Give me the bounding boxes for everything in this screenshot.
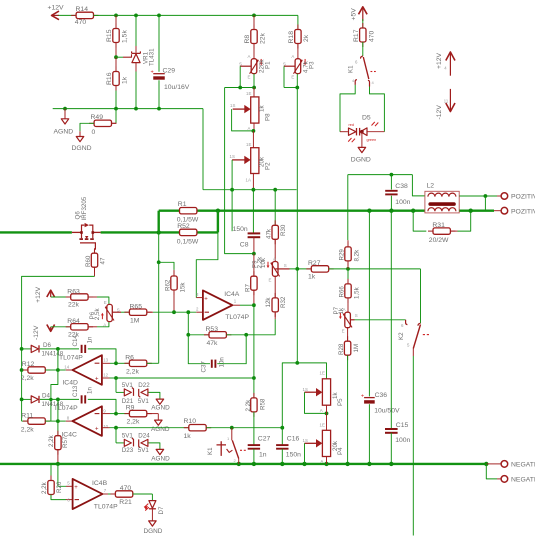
capacitor C37 10n xyxy=(211,360,213,368)
wire R53 right xyxy=(226,334,246,336)
wire gate to R60 xyxy=(94,249,97,251)
svg-text:1,5k: 1,5k xyxy=(121,30,128,43)
junction pozitiv x485 top xyxy=(484,194,488,198)
svg-text:+: + xyxy=(361,393,364,399)
svg-text:D5: D5 xyxy=(362,114,371,121)
svg-text:1A: 1A xyxy=(246,178,251,183)
svg-text:12: 12 xyxy=(103,372,108,377)
svg-text:1k: 1k xyxy=(121,76,128,84)
wire thin sense rail x159 down xyxy=(158,232,160,262)
wire TL431 column bottom xyxy=(135,63,137,72)
wire R11 to IC4C output xyxy=(45,420,58,422)
wire pin12 net xyxy=(116,377,254,379)
wire node to TL431 ref xyxy=(116,56,123,58)
svg-text:2,2k: 2,2k xyxy=(126,368,139,375)
wire R18 to P3 xyxy=(297,44,299,59)
wire P4 wiper to bus xyxy=(304,443,306,464)
resistor R62 15k xyxy=(173,270,175,276)
potentiometer P4 20k xyxy=(322,430,330,456)
junction y190 P2 wiper xyxy=(230,188,234,192)
trimmer P7 1k xyxy=(345,312,351,328)
junction D4 node xyxy=(56,398,60,402)
wire TL431 column top xyxy=(135,15,137,46)
svg-text:R64: R64 xyxy=(67,318,80,325)
junction P8/P2 node xyxy=(252,129,256,133)
junction sense C8 node xyxy=(252,252,256,256)
wire P1 wiper loop xyxy=(240,65,251,67)
wire D4 node to output xyxy=(57,399,59,421)
wire -12V to R64 xyxy=(51,326,71,328)
svg-text:A: A xyxy=(273,256,276,261)
capacitor C38 100n xyxy=(390,175,392,190)
svg-text:22k: 22k xyxy=(68,302,80,309)
diode D6 1N4148 xyxy=(31,345,38,352)
wire R21 to D7 xyxy=(133,493,153,495)
zener D24 5V1 xyxy=(141,439,148,446)
terminal NEGATIV 1 xyxy=(501,461,508,468)
wire R26 to pin6 xyxy=(51,495,66,500)
svg-text:+: + xyxy=(95,376,99,382)
resistor R57 2,2k vertical xyxy=(57,421,59,436)
wire P1 bottom xyxy=(253,74,255,88)
wire R62 bottom xyxy=(173,290,175,312)
wire R63 to P6 top xyxy=(88,296,97,298)
svg-text:2,2k: 2,2k xyxy=(48,434,55,447)
wire C37 right leg xyxy=(217,335,246,364)
resistor R26 2,2k vertical xyxy=(50,476,52,481)
wire negative bus thick xyxy=(0,463,486,465)
resistor R12 2,2k xyxy=(22,369,28,371)
wire AGND stub xyxy=(64,109,66,119)
supply arrow -12V mid-left xyxy=(50,327,52,331)
junction P3 node xyxy=(295,86,299,90)
wire D6 anode xyxy=(22,348,32,350)
resistor R16 1k xyxy=(115,67,117,72)
svg-text:10n: 10n xyxy=(219,357,226,368)
svg-text:IRF3205: IRF3205 xyxy=(81,196,88,220)
junction IC4D output node xyxy=(56,368,60,372)
junction neg bus x391 xyxy=(389,462,393,466)
wire P3 bottom xyxy=(296,74,298,88)
wire to D23 xyxy=(116,442,124,444)
LED D7 xyxy=(149,501,156,509)
wire shunt right vertical thick xyxy=(217,211,219,233)
resistor R17 470 xyxy=(362,23,364,28)
svg-text:D6: D6 xyxy=(43,342,51,349)
resistor R8 22k xyxy=(253,25,255,30)
junction AGND bus x136 xyxy=(134,107,138,111)
wire R31 left leg xyxy=(413,211,426,231)
svg-text:P5: P5 xyxy=(337,398,344,406)
svg-text:R58: R58 xyxy=(259,398,266,410)
junction neg bus corner xyxy=(484,462,488,466)
svg-text:1S: 1S xyxy=(303,387,308,392)
svg-text:AGND: AGND xyxy=(151,426,170,433)
relay contact K1 upper xyxy=(361,56,363,59)
junction D5 center xyxy=(360,130,364,134)
svg-text:1n: 1n xyxy=(86,387,93,394)
svg-text:470: 470 xyxy=(75,19,87,26)
junction pin2 net R62 xyxy=(172,310,176,314)
wire C13 to pin9 node xyxy=(88,399,116,413)
resistor R66 1,5k xyxy=(347,269,349,284)
svg-text:C13: C13 xyxy=(72,385,79,397)
svg-text:NEGATIV: NEGATIV xyxy=(511,462,535,469)
zener D22 5V1 xyxy=(141,389,148,396)
junction neg bus x304 xyxy=(302,462,306,466)
diode D4 1N4148 xyxy=(31,396,38,403)
wire D5 to DGND xyxy=(361,132,363,148)
svg-text:100n: 100n xyxy=(395,437,410,444)
svg-text:1S: 1S xyxy=(230,154,235,159)
junction IC4A output xyxy=(252,303,256,307)
junction left rail D4 xyxy=(20,398,24,402)
capacitor C29 10u/16V xyxy=(153,73,165,75)
junction neg bus x238 xyxy=(237,462,241,466)
svg-text:S: S xyxy=(284,263,287,268)
svg-text:C37: C37 xyxy=(200,361,207,373)
svg-text:12k: 12k xyxy=(265,297,272,308)
resistor R60 47 xyxy=(94,248,96,253)
terminal POZITIV 2 xyxy=(501,207,508,214)
svg-text:R9: R9 xyxy=(126,405,135,412)
svg-text:2,2k: 2,2k xyxy=(245,399,252,412)
wire P7 wiper to K2 xyxy=(350,319,354,321)
wire node to C14 xyxy=(58,348,79,350)
svg-text:R66: R66 xyxy=(338,286,345,298)
svg-text:IC4A: IC4A xyxy=(224,291,240,298)
terminal NEGATIV 2 xyxy=(501,476,508,483)
wire IC4B output xyxy=(103,493,109,495)
junction neg bus x369 xyxy=(367,462,371,466)
wire D6 node to output xyxy=(57,349,59,370)
wire pin10 stub xyxy=(102,427,110,429)
svg-text:C16: C16 xyxy=(287,435,300,442)
wire R8 top stub xyxy=(253,15,255,29)
wire C8 bottom xyxy=(253,237,255,253)
wire R49 to DGND xyxy=(80,123,94,131)
svg-text:+5V: +5V xyxy=(350,8,357,21)
wire left rail x21 down xyxy=(21,349,23,421)
potentiometer P2 20k xyxy=(251,148,259,174)
svg-text:100n: 100n xyxy=(395,199,410,206)
capacitor C36 10u/50V xyxy=(364,397,375,399)
svg-text:R30: R30 xyxy=(280,224,287,236)
wire to D21 xyxy=(116,391,124,393)
wire set node to P5 xyxy=(297,363,326,379)
svg-text:A: A xyxy=(291,54,294,59)
svg-text:E: E xyxy=(104,300,107,305)
svg-text:1n: 1n xyxy=(86,336,93,343)
wire R30 column xyxy=(274,190,276,226)
junction bus x391 xyxy=(389,209,393,213)
wire P5 wiper loop xyxy=(305,392,327,413)
wire R32 bottom to R53 node xyxy=(274,312,276,319)
svg-text:2,2k: 2,2k xyxy=(21,426,34,433)
svg-text:1M: 1M xyxy=(130,317,140,324)
resistor R11 2,2k xyxy=(22,420,28,422)
junction top bus x159 xyxy=(157,14,161,18)
wire K1 left pin to D5 loop xyxy=(340,85,355,132)
svg-text:-12V: -12V xyxy=(436,105,443,120)
svg-text:470: 470 xyxy=(368,30,375,42)
svg-text:A: A xyxy=(248,54,251,59)
op-amp IC4C TL074P xyxy=(72,406,102,436)
potentiometer P8 1k xyxy=(251,97,259,123)
supply arrow +12V top-left xyxy=(53,14,60,16)
svg-text:-12V: -12V xyxy=(33,325,40,340)
junction bus-left corner xyxy=(157,230,161,234)
svg-text:C15: C15 xyxy=(396,422,409,429)
svg-text:E: E xyxy=(342,329,345,334)
junction pin13 node xyxy=(114,361,118,365)
wire K2 pole down off-page xyxy=(412,349,414,357)
op-amp IC4B TL074P xyxy=(73,479,103,509)
wire D4 anode xyxy=(22,398,32,400)
svg-text:+12V: +12V xyxy=(35,286,42,303)
svg-text:AGND: AGND xyxy=(151,405,170,412)
svg-text:L2: L2 xyxy=(427,183,435,190)
svg-text:+12V: +12V xyxy=(436,52,443,69)
wire output column down xyxy=(253,305,255,378)
svg-text:K1: K1 xyxy=(207,447,214,455)
wire IC4B pin5 feed xyxy=(58,464,66,486)
junction bus x369 xyxy=(367,209,371,213)
capacitor C8 150n xyxy=(248,232,261,234)
ground AGND D24 xyxy=(156,449,164,454)
junction pin12 node xyxy=(114,376,118,380)
svg-text:D7: D7 xyxy=(158,506,165,514)
wire P2 wiper loop xyxy=(231,160,233,190)
wire C29 column top xyxy=(158,15,160,71)
wire R57 to bus xyxy=(57,450,59,464)
wire C15 column top xyxy=(390,211,392,429)
wire C27 to bus xyxy=(253,449,255,464)
ground DGND under D5 xyxy=(358,147,366,152)
svg-text:10u/16V: 10u/16V xyxy=(164,84,190,91)
wire P8 bottom pin xyxy=(253,123,255,131)
svg-text:green: green xyxy=(367,138,377,142)
resistor R28 1M xyxy=(347,336,349,341)
wire R64 to P6 bottom xyxy=(88,326,97,328)
svg-text:E: E xyxy=(291,74,294,79)
junction AGND bus x65 xyxy=(63,107,67,111)
junction P5 bottom xyxy=(325,412,329,416)
svg-text:R60: R60 xyxy=(85,255,92,267)
svg-text:1n: 1n xyxy=(259,452,267,459)
junction D6 node xyxy=(56,347,60,351)
ground DGND D7 xyxy=(149,521,157,526)
svg-text:470: 470 xyxy=(120,485,132,492)
svg-text:150n: 150n xyxy=(233,226,248,233)
svg-text:1k: 1k xyxy=(259,105,266,112)
wire R27 node line to K2 xyxy=(348,268,421,270)
capacitor C16 150n xyxy=(276,444,288,446)
wire K1 right pin to D5 loop xyxy=(370,87,385,132)
svg-text:P2: P2 xyxy=(264,162,271,170)
svg-text:R14: R14 xyxy=(76,6,89,13)
supply arrow +5V xyxy=(362,8,364,21)
wire R7 to IC4A output xyxy=(253,290,255,305)
svg-text:R1: R1 xyxy=(178,201,187,208)
svg-text:E: E xyxy=(269,277,272,282)
svg-text:22k: 22k xyxy=(259,32,266,44)
svg-text:R27: R27 xyxy=(308,260,321,267)
svg-text:R53: R53 xyxy=(206,326,219,333)
svg-text:R21: R21 xyxy=(119,499,132,506)
svg-text:K2: K2 xyxy=(398,332,405,340)
trimmer P3 4,7k xyxy=(295,59,301,74)
junction R15/R16 node xyxy=(114,55,118,59)
resistor R9 2,2k xyxy=(116,413,129,415)
svg-text:DGND: DGND xyxy=(351,156,371,163)
junction neg bus x326 xyxy=(324,462,328,466)
junction AGND bus x159 xyxy=(157,107,161,111)
junction neg bus x253 xyxy=(252,462,256,466)
svg-text:1S: 1S xyxy=(303,438,308,443)
wire main positive bus y210 thick xyxy=(159,209,180,211)
svg-text:TL074P: TL074P xyxy=(94,503,118,510)
wire set line x297 lower xyxy=(296,269,298,363)
junction y190 x275 xyxy=(273,188,277,192)
svg-text:D24: D24 xyxy=(138,433,150,440)
svg-text:8,2k: 8,2k xyxy=(353,249,360,262)
svg-text:0,1/5W: 0,1/5W xyxy=(177,238,199,245)
wire D6 cathode to node xyxy=(40,348,58,350)
wire pin10 net xyxy=(110,427,189,429)
svg-text:1E: 1E xyxy=(320,422,325,427)
wire R60 bottom to left rail xyxy=(94,267,96,276)
ground AGND left xyxy=(61,119,69,124)
wire pozitiv stub xyxy=(494,210,501,212)
junction neg bus x347 xyxy=(345,462,349,466)
wire bus corner to R18 xyxy=(297,15,299,29)
svg-text:A: A xyxy=(248,126,251,131)
op-amp IC4A TL074P xyxy=(203,290,233,320)
wire C8 column from divider xyxy=(252,190,254,233)
wire divider node line y190 xyxy=(202,109,204,190)
resistor R52 0,1/5W xyxy=(180,229,197,235)
resistor R64 22k xyxy=(66,326,71,328)
junction y87 x254 xyxy=(252,86,256,90)
svg-text:AGND: AGND xyxy=(151,456,170,463)
op-amp IC4D TL074P xyxy=(72,355,102,385)
svg-text:D4: D4 xyxy=(42,393,50,400)
svg-text:1E: 1E xyxy=(320,371,325,376)
junction top bus x254 xyxy=(252,14,256,18)
svg-text:C36: C36 xyxy=(375,392,388,399)
capacitor C14 1n xyxy=(81,345,83,353)
junction R10 line K1 xyxy=(230,426,234,430)
wire R16 column xyxy=(115,57,117,71)
wire P4 bottom to bus xyxy=(326,457,328,464)
svg-text:R31: R31 xyxy=(432,222,445,229)
wire R31 right leg xyxy=(458,211,471,231)
svg-text:15k: 15k xyxy=(179,282,186,293)
wire pin9 stub xyxy=(102,413,110,415)
svg-text:47: 47 xyxy=(100,257,107,264)
svg-text:C8: C8 xyxy=(240,241,249,248)
resistor R10 1k xyxy=(184,427,189,429)
svg-text:R26: R26 xyxy=(56,481,63,493)
junction R12 left xyxy=(20,368,24,372)
junction jog D4 line xyxy=(49,398,52,401)
trimmer P9 10k xyxy=(272,262,278,277)
resistor R29 8,2k xyxy=(347,240,349,247)
wire node y87 left xyxy=(225,87,255,89)
capacitor C27 1n xyxy=(248,444,260,446)
svg-text:R49: R49 xyxy=(91,114,104,121)
wire pin12 stub xyxy=(102,377,110,379)
svg-text:+: + xyxy=(151,69,154,75)
resistor R6 2,2k xyxy=(116,362,129,364)
wire R12 to IC4D output xyxy=(45,369,58,371)
svg-text:1E: 1E xyxy=(246,91,251,96)
supply arrow +12V mid-left xyxy=(50,291,52,297)
svg-text:R18: R18 xyxy=(288,31,295,44)
capacitor C13 1n xyxy=(81,395,83,403)
resistor R58 2,2k xyxy=(253,378,255,398)
svg-text:IC4D: IC4D xyxy=(62,380,78,387)
svg-text:R17: R17 xyxy=(353,29,360,42)
wire zener drop D23 xyxy=(115,428,117,443)
wire divider to bus drop xyxy=(231,190,233,232)
svg-text:5V1: 5V1 xyxy=(138,447,150,454)
junction top bus x136 xyxy=(134,14,138,18)
svg-text:1k: 1k xyxy=(308,274,316,281)
svg-text:R11: R11 xyxy=(21,412,33,419)
svg-text:R32: R32 xyxy=(280,296,287,308)
resistor R15 1,5k xyxy=(115,24,117,29)
svg-text:0: 0 xyxy=(92,129,96,136)
wire set line x297 down xyxy=(296,88,298,269)
svg-text:20/2W: 20/2W xyxy=(429,237,449,244)
wire C15 column bottom xyxy=(390,433,392,464)
wire K1 lower to bus xyxy=(238,459,240,464)
svg-text:+: + xyxy=(204,296,208,302)
zener D21 5V1 xyxy=(124,389,131,396)
trimmer P1 220k xyxy=(251,59,257,74)
wire R15 column xyxy=(115,15,117,28)
wire R9 to AGND xyxy=(147,413,159,415)
capacitor C15 100n xyxy=(385,428,398,430)
junction pin12 net right xyxy=(252,376,256,380)
svg-text:R57: R57 xyxy=(62,436,69,448)
wire P5 to P4 xyxy=(326,405,328,413)
wire C37 left leg xyxy=(188,335,210,364)
wire R17 to K1 contact xyxy=(362,42,364,56)
wire +12V to R63 xyxy=(51,296,71,298)
svg-text:POZITIV: POZITIV xyxy=(511,208,535,215)
junction pozitiv R31 drop xyxy=(469,209,473,213)
junction R57 bus xyxy=(56,462,60,466)
wire zener drop D21 xyxy=(115,378,117,392)
svg-text:NEGATIV: NEGATIV xyxy=(511,477,535,484)
svg-text:2,2k: 2,2k xyxy=(127,419,140,426)
svg-text:R7: R7 xyxy=(244,284,251,292)
junction top bus x116 xyxy=(114,14,118,18)
wire pozitiv tie vertical xyxy=(484,196,486,211)
wire IC4A output xyxy=(232,304,240,306)
wire NEGATIV 2 link xyxy=(486,464,497,479)
svg-text:47k: 47k xyxy=(207,340,219,347)
svg-text:red: red xyxy=(349,123,355,127)
svg-text:S: S xyxy=(239,61,242,66)
relay contact K1 lower xyxy=(231,428,233,441)
wire +12V to R14 xyxy=(59,14,77,16)
svg-text:R10: R10 xyxy=(184,418,197,425)
svg-text:TL074P: TL074P xyxy=(59,355,83,362)
